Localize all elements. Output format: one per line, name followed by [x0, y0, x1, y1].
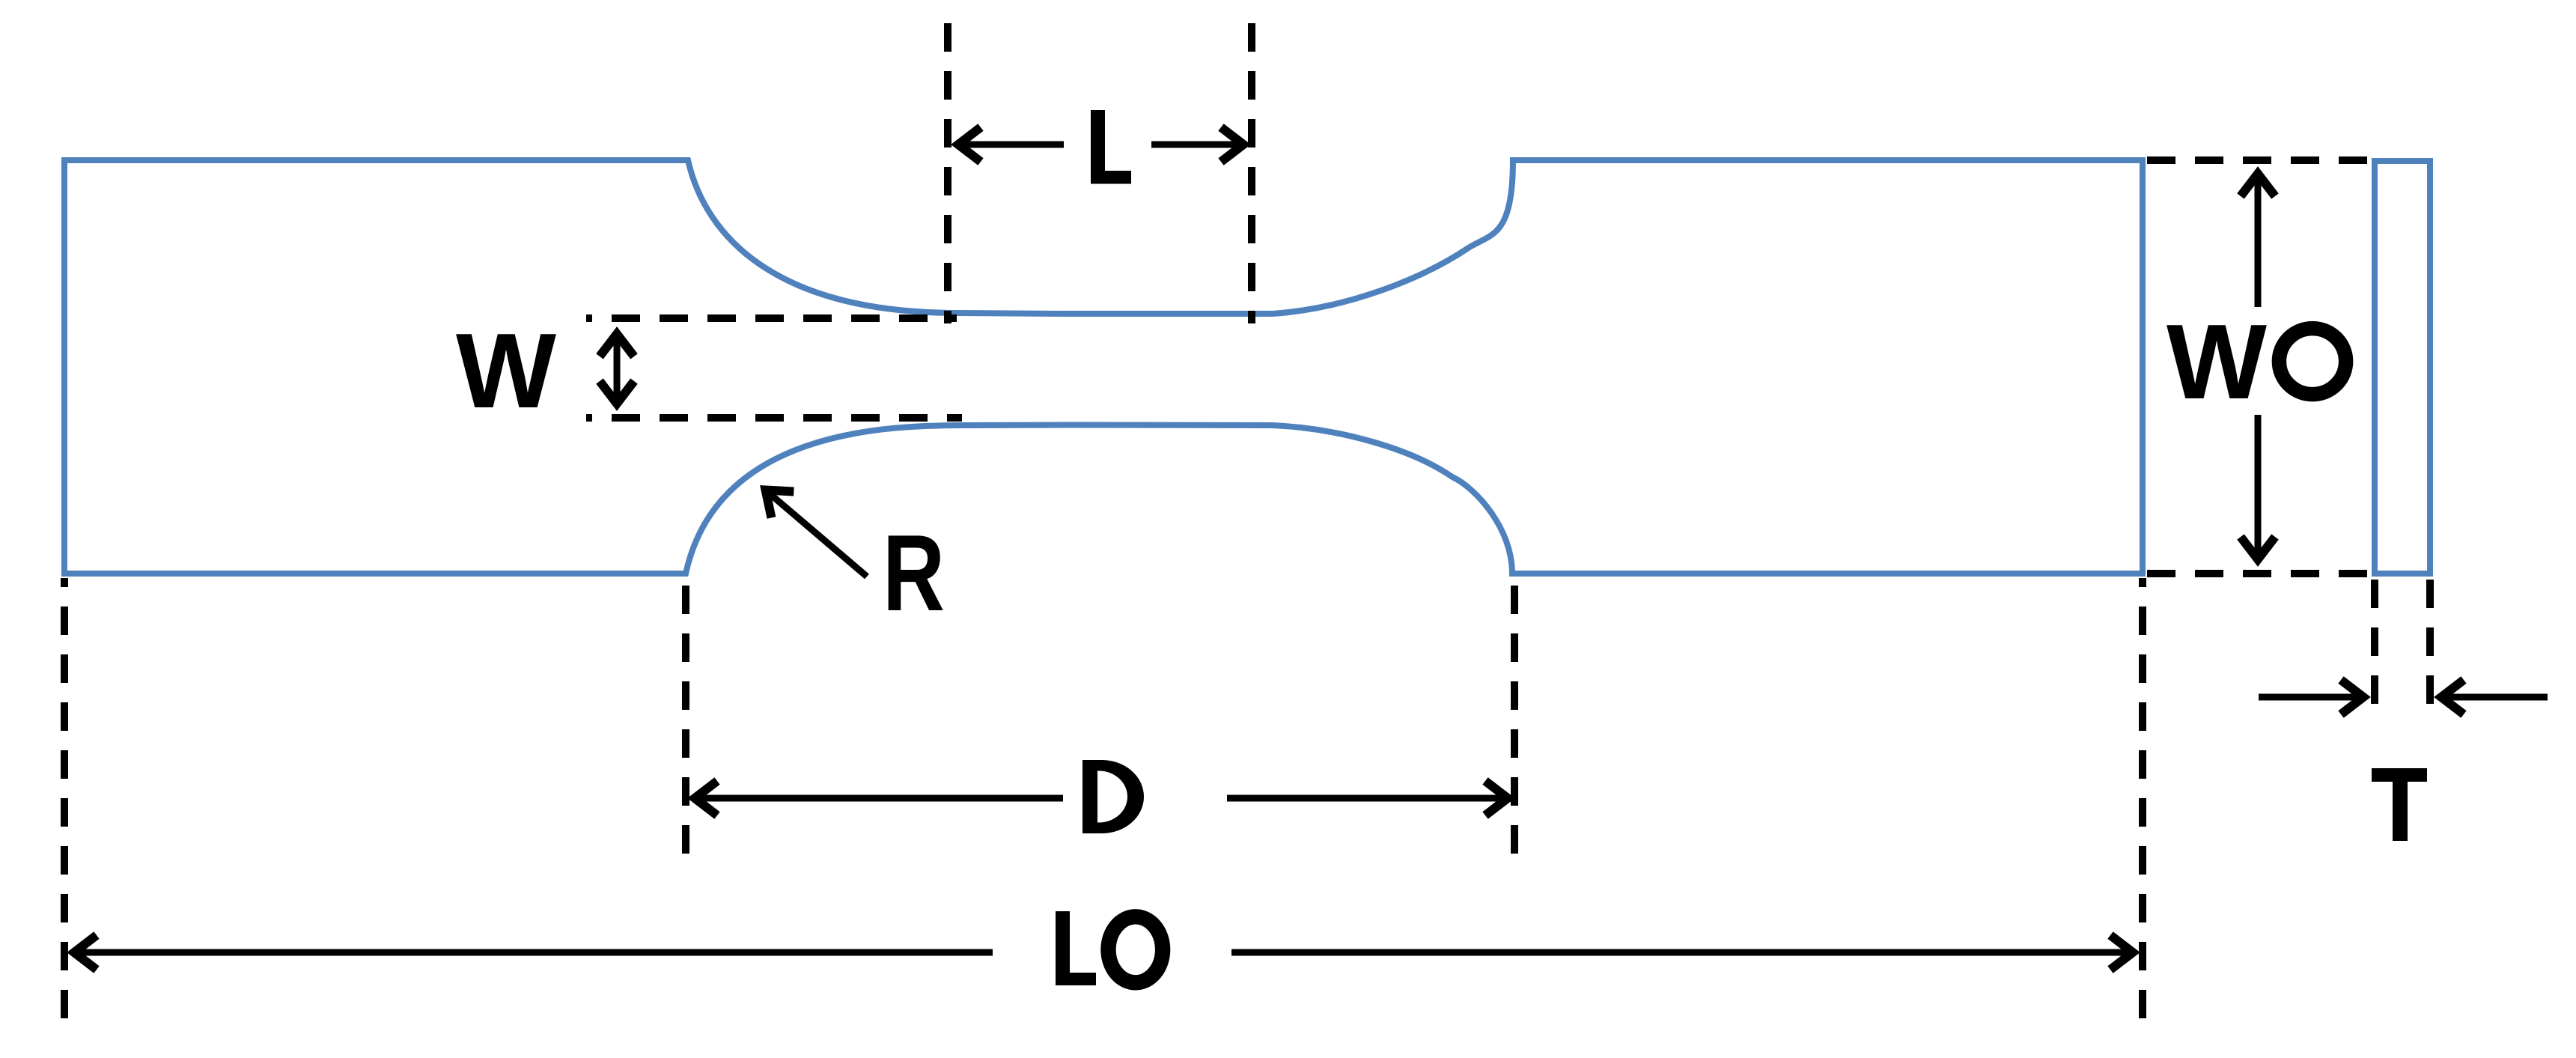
LO dimension left arrow [74, 949, 993, 956]
L right dashed extension line [1248, 23, 1255, 323]
R label [883, 512, 945, 633]
svg-text:R: R [883, 512, 945, 633]
specimen front-view outline (dog-bone) [64, 160, 2143, 574]
T dimension right arrow [2441, 694, 2548, 701]
T left dashed extension line [2371, 580, 2378, 713]
svg-text:W: W [2167, 302, 2267, 422]
L dimension left arrow [958, 142, 1064, 148]
R leader arrow [766, 490, 867, 577]
T right dashed extension line [2426, 580, 2434, 713]
WO dimension up arrow [2255, 174, 2262, 307]
LO right dashed extension line [2139, 578, 2146, 1027]
D dimension left arrow [695, 795, 1063, 802]
W dimension double arrow [614, 334, 621, 404]
T dimension left arrow [2259, 694, 2363, 701]
D label [1083, 760, 1144, 833]
WO dimension down arrow [2255, 415, 2262, 559]
L dimension right arrow [1151, 142, 1243, 148]
W top dashed extension line [586, 314, 957, 322]
T label [2372, 768, 2427, 841]
W bottom dashed extension line [586, 414, 962, 422]
svg-text:W: W [456, 311, 556, 431]
L left dashed extension line [944, 23, 951, 323]
LO label [1056, 911, 1096, 985]
LO left dashed extension line [61, 578, 68, 1027]
D right dashed extension line [1511, 578, 1518, 857]
WO bottom dashed extension line [2147, 570, 2368, 577]
L label [1091, 110, 1131, 184]
D dimension right arrow [1227, 795, 1508, 802]
WO top dashed extension line [2147, 156, 2368, 164]
specimen side-view thin rectangle (thickness T) [2375, 161, 2430, 574]
D left dashed extension line [682, 578, 689, 857]
LO dimension right arrow [1231, 949, 2133, 956]
